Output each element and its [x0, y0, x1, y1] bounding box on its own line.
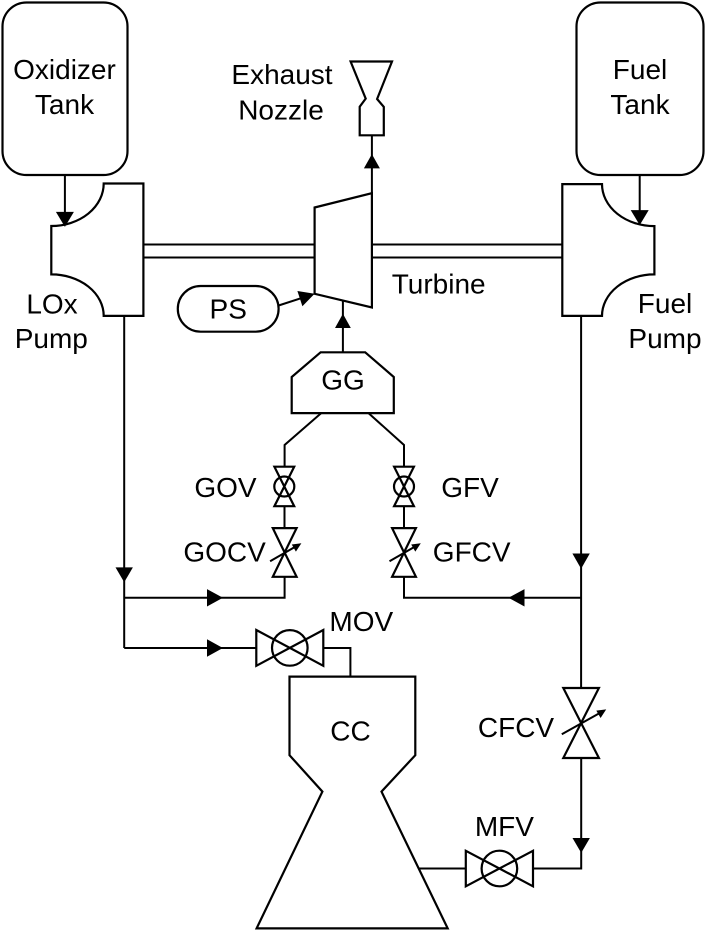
wire GOV to GOCV: [284, 506, 286, 528]
wire GG to GFV: [369, 413, 405, 467]
svg-text:Oxidizer: Oxidizer: [13, 54, 116, 85]
svg-text:GG: GG: [321, 365, 365, 396]
arrowhead down above MFV junction: [573, 838, 590, 853]
svg-text:CFCV: CFCV: [478, 712, 555, 743]
svg-text:Fuel: Fuel: [613, 54, 667, 85]
svg-text:Pump: Pump: [628, 323, 701, 354]
CC combustion chamber: [257, 677, 448, 929]
wire GG to GOV: [285, 413, 322, 467]
valve GFCV: [390, 528, 511, 577]
wire oxidizer tank to LOx pump: [64, 176, 66, 223]
valve GOCV: [183, 528, 301, 577]
wire LOx to MOV horizontal: [124, 647, 256, 649]
arrowhead right on GOCV junction: [207, 589, 223, 606]
svg-text:Exhaust: Exhaust: [231, 59, 332, 90]
arrowhead left on GFCV junction: [509, 589, 525, 606]
arrowhead down on fuel line: [572, 554, 589, 569]
valve CFCV: [478, 688, 606, 758]
valve GOV: [194, 467, 294, 507]
GG gas generator: [292, 352, 394, 413]
fuel pump: [562, 184, 701, 354]
svg-text:Tank: Tank: [610, 89, 670, 120]
svg-text:CC: CC: [330, 716, 370, 747]
svg-text:GFCV: GFCV: [433, 537, 511, 568]
wire PS to turbine: [279, 295, 310, 305]
svg-text:GOCV: GOCV: [183, 537, 266, 568]
svg-text:Fuel: Fuel: [638, 288, 692, 319]
svg-text:MFV: MFV: [475, 811, 534, 842]
wire fuel tank to fuel pump: [639, 176, 641, 220]
svg-text:GFV: GFV: [441, 472, 499, 503]
shaft left (two lines): [143, 245, 314, 258]
valve MFV: [466, 811, 534, 886]
svg-text:GOV: GOV: [194, 472, 257, 503]
arrowhead right to MOV: [207, 639, 223, 656]
valve MOV: [256, 606, 393, 666]
arrowhead PS to turbine: [297, 291, 314, 306]
svg-text:Pump: Pump: [15, 323, 88, 354]
valve GFV: [394, 467, 499, 507]
oxidizer tank: [3, 3, 128, 176]
LOx pump: [15, 184, 144, 355]
wire GOCV junction horizontal: [124, 577, 284, 598]
svg-text:Tank: Tank: [35, 89, 95, 120]
wire turbine to exhaust nozzle: [371, 135, 373, 193]
shaft right (two lines): [372, 245, 562, 258]
svg-text:MOV: MOV: [329, 606, 393, 637]
PS oval: [178, 286, 279, 332]
wire GG to turbine: [342, 301, 344, 352]
svg-text:LOx: LOx: [26, 289, 77, 320]
wire LOx pump down: [123, 316, 125, 648]
arrowhead down into fuel pump: [631, 210, 649, 225]
fuel tank: [577, 3, 704, 176]
wire CFCV down to MFV junction: [533, 758, 581, 869]
wire MFV to CC: [419, 868, 466, 870]
svg-text:Turbine: Turbine: [392, 269, 486, 300]
wire fuel pump down: [580, 316, 582, 688]
arrowhead down on LOx line: [116, 567, 133, 582]
arrowhead up into turbine: [335, 314, 351, 328]
arrowhead up to nozzle: [364, 154, 380, 168]
svg-text:Nozzle: Nozzle: [238, 95, 324, 126]
wire MOV to CC: [323, 648, 350, 677]
turbine U: [315, 193, 486, 307]
arrowhead down into LOx pump: [56, 212, 74, 227]
wire GFCV junction horizontal: [404, 577, 581, 598]
exhaust nozzle: [231, 59, 392, 135]
wire GFV to GFCV: [403, 506, 405, 528]
svg-text:PS: PS: [210, 294, 247, 325]
